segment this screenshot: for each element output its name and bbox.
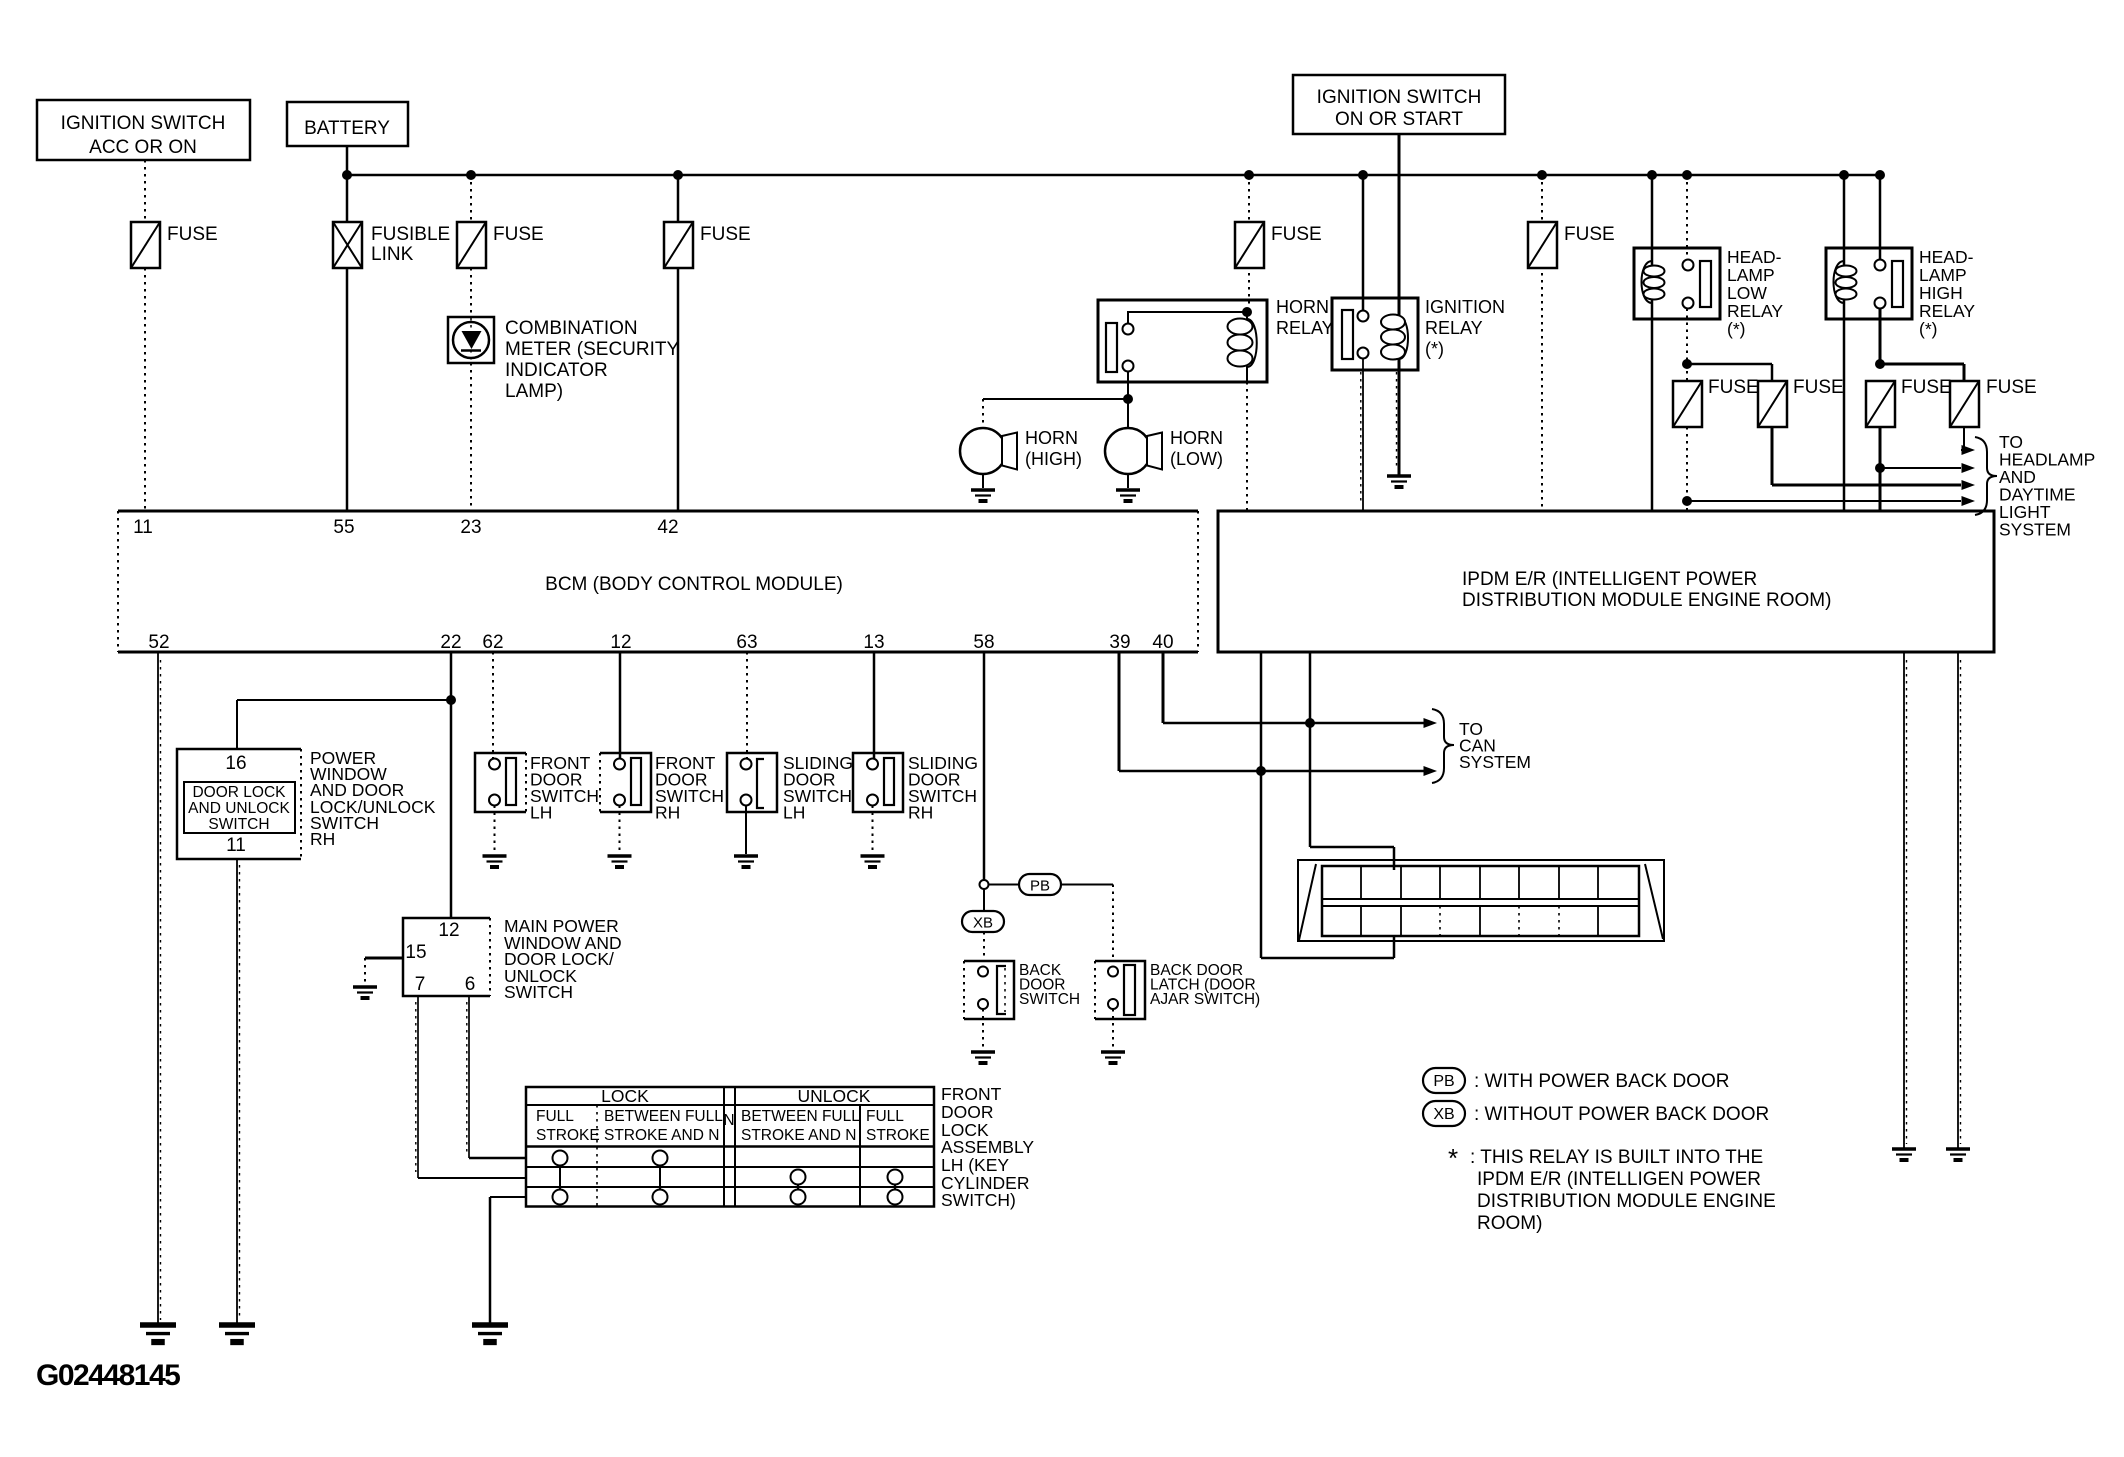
- svg-text:LINK: LINK: [371, 244, 414, 265]
- svg-text:AND UNLOCK: AND UNLOCK: [188, 800, 290, 817]
- svg-text:RH: RH: [310, 829, 335, 849]
- svg-text:58: 58: [973, 632, 994, 653]
- svg-text:LAMP): LAMP): [505, 381, 563, 402]
- svg-text:ON OR START: ON OR START: [1335, 109, 1463, 130]
- svg-text:IPDM E/R (INTELLIGENT POWER: IPDM E/R (INTELLIGENT POWER: [1462, 569, 1757, 590]
- svg-text:SWITCH): SWITCH): [941, 1190, 1016, 1210]
- svg-text:SWITCH: SWITCH: [208, 816, 269, 833]
- svg-text:IGNITION: IGNITION: [1425, 297, 1505, 317]
- svg-text:HORN: HORN: [1170, 428, 1223, 448]
- svg-text:62: 62: [482, 632, 503, 653]
- svg-text:STROKE: STROKE: [536, 1127, 600, 1144]
- svg-text:42: 42: [657, 517, 678, 538]
- svg-text:22: 22: [440, 632, 461, 653]
- svg-text:FUSE: FUSE: [700, 224, 751, 245]
- svg-text:ROOM): ROOM): [1477, 1213, 1542, 1234]
- svg-text:UNLOCK: UNLOCK: [798, 1086, 871, 1106]
- svg-text:FUSE: FUSE: [1793, 377, 1844, 398]
- svg-text:FRONT: FRONT: [941, 1084, 1002, 1104]
- svg-text:FUSE: FUSE: [1708, 377, 1759, 398]
- svg-text:16: 16: [225, 753, 246, 774]
- svg-text:11: 11: [133, 517, 153, 538]
- svg-text:XB: XB: [973, 915, 993, 932]
- svg-text:INDICATOR: INDICATOR: [505, 360, 608, 381]
- svg-text:40: 40: [1152, 632, 1173, 653]
- svg-text:FUSE: FUSE: [167, 224, 218, 245]
- svg-text:FUSE: FUSE: [1271, 224, 1322, 245]
- svg-text:12: 12: [438, 920, 459, 941]
- svg-text:11: 11: [226, 835, 246, 856]
- svg-text:LAMP: LAMP: [1919, 265, 1967, 285]
- svg-text:STROKE AND N: STROKE AND N: [741, 1127, 856, 1144]
- svg-text:39: 39: [1109, 632, 1130, 653]
- svg-text:BATTERY: BATTERY: [304, 118, 390, 139]
- svg-text:STROKE AND N: STROKE AND N: [604, 1127, 719, 1144]
- svg-text:LH: LH: [783, 803, 805, 823]
- svg-text:13: 13: [863, 632, 884, 653]
- svg-text:G02448145: G02448145: [36, 1359, 180, 1392]
- svg-text:SWITCH: SWITCH: [504, 982, 573, 1002]
- svg-text:XB: XB: [1433, 1106, 1454, 1123]
- svg-text:DISTRIBUTION MODULE ENGINE: DISTRIBUTION MODULE ENGINE: [1477, 1191, 1776, 1212]
- svg-text:(LOW): (LOW): [1170, 449, 1223, 469]
- svg-text:BETWEEN FULL: BETWEEN FULL: [741, 1108, 860, 1125]
- svg-text:IGNITION SWITCH: IGNITION SWITCH: [1317, 87, 1482, 108]
- svg-text:AJAR SWITCH): AJAR SWITCH): [1150, 991, 1260, 1008]
- svg-text:(HIGH): (HIGH): [1025, 449, 1082, 469]
- svg-text:15: 15: [405, 942, 426, 963]
- svg-text:HORN: HORN: [1025, 428, 1078, 448]
- svg-text:HIGH: HIGH: [1919, 283, 1963, 303]
- svg-text:BETWEEN FULL: BETWEEN FULL: [604, 1108, 723, 1125]
- svg-text:52: 52: [148, 632, 169, 653]
- svg-text:FUSE: FUSE: [1564, 224, 1615, 245]
- svg-text:*: *: [1448, 1143, 1458, 1173]
- svg-text:PB: PB: [1433, 1073, 1454, 1090]
- svg-text:FULL: FULL: [866, 1108, 904, 1125]
- svg-text:23: 23: [460, 517, 481, 538]
- svg-text:12: 12: [610, 632, 631, 653]
- svg-text:STROKE: STROKE: [866, 1127, 930, 1144]
- svg-text:: WITHOUT POWER BACK DOOR: : WITHOUT POWER BACK DOOR: [1474, 1104, 1769, 1125]
- svg-text:ASSEMBLY: ASSEMBLY: [941, 1137, 1034, 1157]
- svg-text:(*): (*): [1727, 319, 1745, 339]
- svg-text:DISTRIBUTION MODULE ENGINE ROO: DISTRIBUTION MODULE ENGINE ROOM): [1462, 590, 1831, 611]
- svg-text:SYSTEM: SYSTEM: [1999, 520, 2071, 540]
- svg-text:RELAY: RELAY: [1727, 301, 1783, 321]
- svg-text:RELAY: RELAY: [1425, 318, 1483, 338]
- svg-text:IGNITION SWITCH: IGNITION SWITCH: [61, 113, 226, 134]
- svg-text:RELAY: RELAY: [1276, 318, 1334, 338]
- svg-text:: THIS RELAY IS BUILT INTO TH: : THIS RELAY IS BUILT INTO THE: [1470, 1147, 1763, 1168]
- svg-text:DOOR: DOOR: [941, 1102, 994, 1122]
- svg-text:RH: RH: [908, 803, 933, 823]
- svg-text:RELAY: RELAY: [1919, 301, 1975, 321]
- svg-text:LAMP: LAMP: [1727, 265, 1775, 285]
- svg-text:FUSE: FUSE: [493, 224, 544, 245]
- svg-text:FUSE: FUSE: [1986, 377, 2037, 398]
- svg-text:DOOR LOCK: DOOR LOCK: [192, 784, 286, 801]
- svg-text:63: 63: [736, 632, 757, 653]
- svg-text:55: 55: [333, 517, 354, 538]
- svg-text:(*): (*): [1425, 339, 1444, 359]
- svg-text:HEAD-: HEAD-: [1727, 247, 1782, 267]
- svg-text:RH: RH: [655, 803, 680, 823]
- svg-text:LH (KEY: LH (KEY: [941, 1155, 1009, 1175]
- svg-text:COMBINATION: COMBINATION: [505, 318, 638, 339]
- svg-text:SWITCH: SWITCH: [1019, 991, 1080, 1008]
- svg-text:6: 6: [465, 974, 476, 995]
- svg-text:SYSTEM: SYSTEM: [1459, 752, 1531, 772]
- svg-text:7: 7: [415, 974, 426, 995]
- svg-text:LH: LH: [530, 803, 552, 823]
- svg-text:FUSE: FUSE: [1901, 377, 1952, 398]
- svg-text:BCM (BODY CONTROL MODULE): BCM (BODY CONTROL MODULE): [545, 574, 843, 595]
- svg-text:LOW: LOW: [1727, 283, 1767, 303]
- svg-text:METER (SECURITY: METER (SECURITY: [505, 339, 680, 360]
- svg-text:FULL: FULL: [536, 1108, 574, 1125]
- svg-text:PB: PB: [1030, 878, 1050, 895]
- svg-text:HEAD-: HEAD-: [1919, 247, 1974, 267]
- svg-text:: WITH POWER BACK DOOR: : WITH POWER BACK DOOR: [1474, 1071, 1729, 1092]
- svg-text:LOCK: LOCK: [601, 1086, 649, 1106]
- svg-text:IPDM E/R (INTELLIGEN POWER: IPDM E/R (INTELLIGEN POWER: [1477, 1169, 1761, 1190]
- svg-text:ACC OR ON: ACC OR ON: [89, 137, 197, 158]
- svg-text:HORN: HORN: [1276, 297, 1329, 317]
- svg-text:FUSIBLE: FUSIBLE: [371, 224, 450, 245]
- svg-text:(*): (*): [1919, 319, 1937, 339]
- svg-text:N: N: [723, 1112, 734, 1129]
